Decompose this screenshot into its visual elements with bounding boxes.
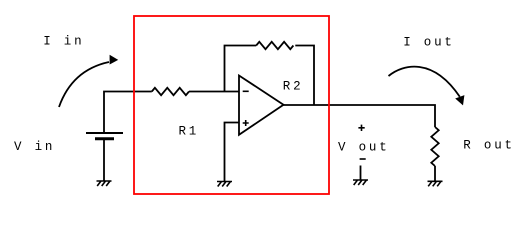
wire plus input to ground [225,123,240,182]
wire feedback right vertical [295,46,314,106]
svg-text:V in: V in [14,140,55,154]
op-amp minus sign [243,90,249,92]
red boundary box [134,16,329,194]
resistor R2 [256,42,293,49]
wire R1 to op-amp [189,91,239,93]
wire output [284,105,436,127]
svg-text:R1: R1 [179,125,200,139]
svg-text:V out: V out [338,141,390,155]
ground V out [353,180,368,185]
wire R out to ground [434,166,436,181]
svg-text:I in: I in [43,34,84,48]
ground battery [97,181,112,186]
svg-text:R2: R2 [283,80,304,94]
op-amp U1 [239,76,284,135]
wire input left corner [104,92,152,134]
resistor R out [431,127,438,166]
battery V source [86,132,123,134]
resistor R1 [152,88,189,95]
wire feedback left vertical [225,46,257,92]
ground op-amp plus [217,182,232,187]
svg-text:R out: R out [463,139,515,153]
label minus V out [360,158,366,160]
arrow I in [59,62,109,107]
wire V out stub [360,166,362,181]
ground R out [428,181,443,186]
label plus V out [358,125,364,131]
wire battery to ground [103,140,105,181]
svg-text:I out: I out [403,35,455,49]
arrow I out [389,67,460,97]
op-amp plus sign [243,120,249,126]
